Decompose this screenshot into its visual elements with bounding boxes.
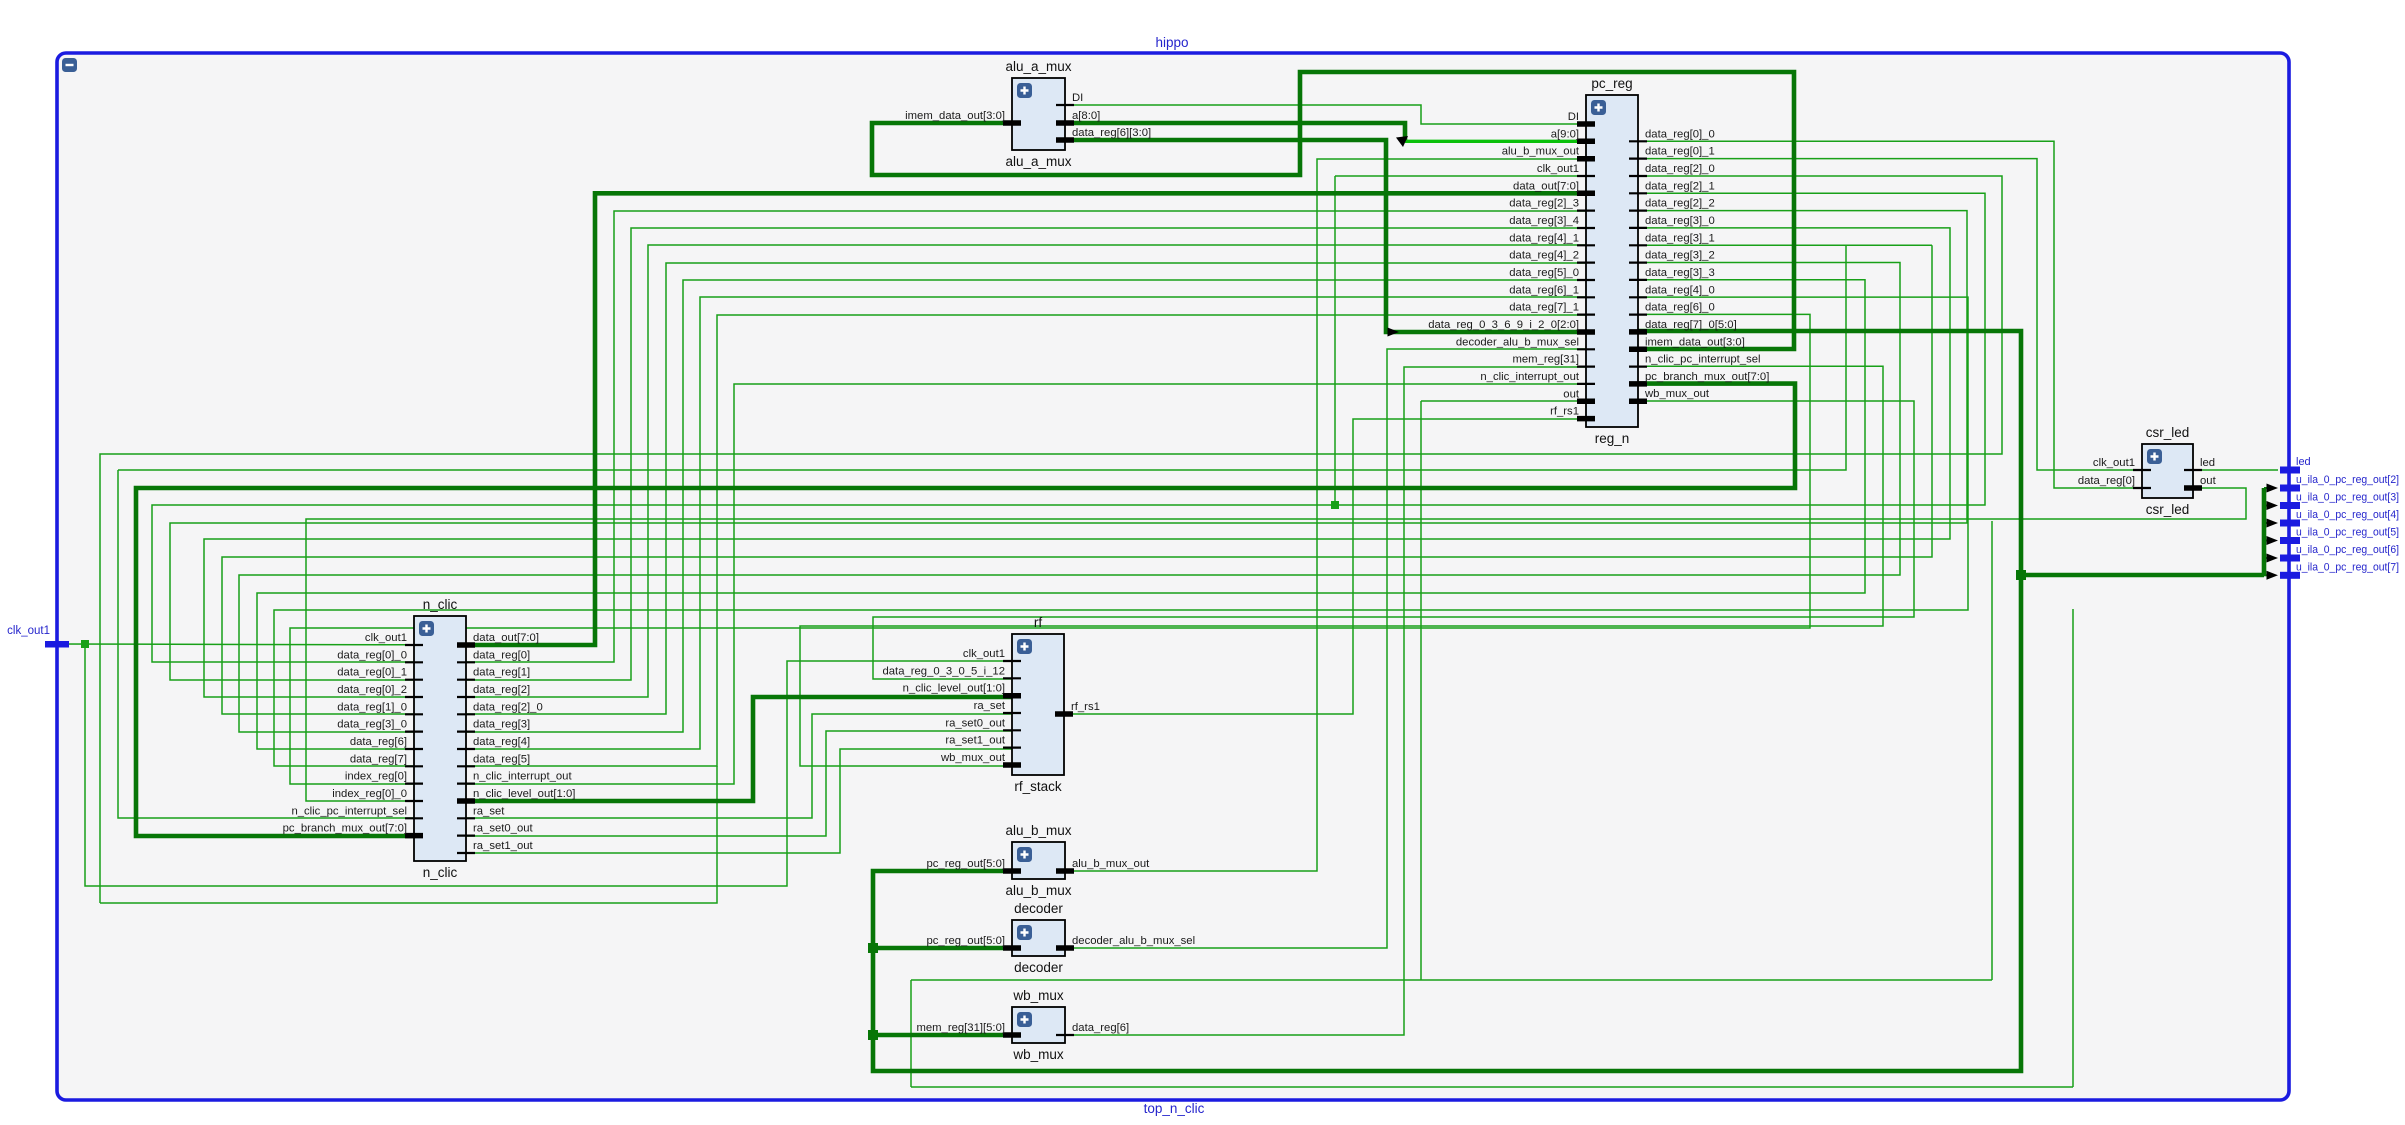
arrow u_ila[4] (2267, 519, 2279, 528)
svg-text:mem_reg[31][5:0]: mem_reg[31][5:0] (916, 1022, 1005, 1034)
pin pc_reg.data_out[7:0] (1577, 191, 1595, 197)
wire n_clic to pc_reg y211 (466, 211, 1586, 662)
pin n_clic.data_reg[0]_0 (405, 661, 423, 663)
svg-text:index_reg[0]_0: index_reg[0]_0 (332, 788, 407, 800)
wire DI (1065, 105, 1586, 124)
svg-text:led: led (2200, 457, 2215, 469)
pin n_clic.data_reg[0]_2 (405, 696, 423, 698)
pin pc_reg.data_reg[2]_1 (1629, 192, 1647, 194)
svg-text:u_ila_0_pc_reg_out[7]: u_ila_0_pc_reg_out[7] (2296, 561, 2399, 573)
pin pc_reg.wb_mux_out (1629, 398, 1647, 404)
pin pc_reg.clk_out1 (1577, 175, 1595, 177)
svg-text:out: out (2200, 475, 2217, 487)
svg-text:imem_data_out[3:0]: imem_data_out[3:0] (1645, 336, 1745, 348)
port led (right border) (2280, 467, 2300, 474)
svg-text:data_reg[2]_3: data_reg[2]_3 (1509, 198, 1579, 210)
wire pc_reg_out to decoder (873, 946, 1012, 951)
svg-text:data_reg[2]_0: data_reg[2]_0 (473, 701, 543, 713)
pin pc_reg.data_reg[7]_0[5:0] (1629, 329, 1647, 335)
pin wb_mux.mem_reg[31][5:0] (1003, 1032, 1021, 1038)
svg-text:alu_a_mux: alu_a_mux (1005, 154, 1071, 169)
wire a bus highlighted (1405, 140, 1586, 143)
svg-text:u_ila_0_pc_reg_out[3]: u_ila_0_pc_reg_out[3] (2296, 492, 2399, 504)
svg-text:rf_stack: rf_stack (1014, 779, 1062, 794)
wire clk vertical to pc_reg (1334, 176, 1336, 505)
wire y557 line (222, 245, 1932, 714)
wire bottom thin rail (911, 1086, 2073, 1088)
svg-text:n_clic_pc_interrupt_sel: n_clic_pc_interrupt_sel (1645, 354, 1761, 366)
pin alu_a_mux.imem_data_out[3:0] (1003, 120, 1021, 126)
svg-text:ra_set: ra_set (473, 805, 505, 817)
svg-text:data_reg[4]: data_reg[4] (473, 736, 530, 748)
pin rf.ra_set (1003, 712, 1021, 714)
pin pc_reg.data_reg[4]_2 (1577, 262, 1595, 264)
pin decoder.pc_reg_out[5:0] (1003, 945, 1021, 951)
svg-text:wb_mux: wb_mux (1012, 1047, 1064, 1062)
pin pc_reg.data_reg[3]_1 (1629, 244, 1647, 246)
wire right thin vertical x1992 (1991, 521, 1993, 980)
wire to rf wb_mux_out (800, 366, 1883, 766)
svg-text:decoder: decoder (1014, 901, 1063, 916)
pin wb_mux.data_reg[6] (1056, 1034, 1074, 1036)
pin n_clic.n_clic_interrupt_out (457, 782, 475, 784)
svg-text:data_reg[0]_0: data_reg[0]_0 (337, 649, 407, 661)
svg-text:rf_rs1: rf_rs1 (1550, 406, 1579, 418)
pin pc_reg.data_reg[3]_3 (1629, 279, 1647, 281)
wire n_clic to pc_reg y315 (466, 315, 1586, 766)
svg-text:data_reg[5]: data_reg[5] (473, 753, 530, 765)
pin csr_led.out (2184, 485, 2202, 491)
svg-text:alu_b_mux_out: alu_b_mux_out (1072, 858, 1150, 870)
wire lower thin rail y980 (911, 979, 1992, 981)
pin n_clic.data_reg[0]_1 (405, 679, 423, 681)
pin pc_reg.alu_b_mux_out (1577, 156, 1595, 162)
pin pc_reg.out (1577, 399, 1595, 405)
pin pc_reg.data_reg[2]_2 (1629, 210, 1647, 212)
wire data_reg[7]_0[5:0] bus (873, 331, 2021, 1071)
pin decoder.decoder_alu_b_mux_sel (1056, 945, 1074, 951)
pin pc_reg.mem_reg[31] (1577, 366, 1595, 368)
svg-text:wb_mux: wb_mux (1012, 988, 1064, 1003)
svg-text:u_ila_0_pc_reg_out[4]: u_ila_0_pc_reg_out[4] (2296, 509, 2399, 521)
svg-text:n_clic: n_clic (423, 597, 458, 612)
pin pc_reg.data_reg[0]_1 (1629, 158, 1647, 160)
pin n_clic.n_clic_pc_interrupt_sel (405, 817, 423, 819)
svg-text:alu_b_mux: alu_b_mux (1005, 883, 1071, 898)
svg-text:n_clic_level_out[1:0]: n_clic_level_out[1:0] (903, 683, 1005, 695)
svg-text:data_reg[1]_0: data_reg[1]_0 (337, 701, 407, 713)
arrowhead a bus (1396, 136, 1408, 147)
pin rf.rf_rs1 (1055, 711, 1073, 717)
svg-text:n_clic_pc_interrupt_sel: n_clic_pc_interrupt_sel (291, 805, 407, 817)
svg-text:data_reg[0]_2: data_reg[0]_2 (337, 684, 407, 696)
wire fan y193.3 (152, 193, 1985, 662)
wire clk to rf (85, 644, 1012, 886)
svg-text:data_reg[6][3:0]: data_reg[6][3:0] (1072, 127, 1151, 139)
pin n_clic.data_reg[6] (405, 748, 423, 750)
wire fan y227.9 (204, 228, 1950, 697)
svg-text:alu_a_mux: alu_a_mux (1005, 59, 1071, 74)
pin pc_reg.data_reg[6]_1 (1577, 296, 1595, 298)
svg-text:clk_out1: clk_out1 (1537, 163, 1579, 175)
svg-text:data_reg[7]: data_reg[7] (350, 753, 407, 765)
arrow u_ila[3] (2267, 501, 2279, 510)
svg-text:data_reg[3]_0: data_reg[3]_0 (337, 719, 407, 731)
port u_ila_0_pc_reg_out[7] (right border) (2280, 572, 2300, 579)
pin pc_reg.a[9:0] (1577, 139, 1595, 145)
svg-text:alu_b_mux: alu_b_mux (1005, 823, 1071, 838)
wire fan y279.8 (257, 280, 1865, 749)
wire n_clic to pc_reg y280 (466, 280, 1586, 732)
pin pc_reg.data_reg[2]_0 (1629, 175, 1647, 177)
svg-text:wb_mux_out: wb_mux_out (1644, 388, 1710, 400)
pin rf.data_reg_0_3_0_5_i_12 (1003, 677, 1021, 679)
pin pc_reg.n_clic_interrupt_out (1577, 383, 1595, 385)
svg-text:data_reg[5]_0: data_reg[5]_0 (1509, 267, 1579, 279)
pin n_clic.data_reg[1]_0 (405, 713, 423, 715)
pin n_clic.ra_set0_out (457, 834, 475, 836)
svg-text:data_reg[6]: data_reg[6] (350, 736, 407, 748)
pin n_clic.ra_set (457, 817, 475, 819)
svg-text:data_reg[1]: data_reg[1] (473, 667, 530, 679)
pin alu_a_mux.DI (1056, 104, 1074, 106)
svg-text:imem_data_out[3:0]: imem_data_out[3:0] (905, 110, 1005, 122)
arrow u_ila[6] (2267, 554, 2279, 563)
svg-text:data_reg[3]_0: data_reg[3]_0 (1645, 215, 1715, 227)
wire right thin vertical x2073 (2072, 609, 2074, 1087)
arrowhead data_reg_0_3_6_9 (1388, 328, 1400, 337)
pin n_clic.clk_out1 (405, 644, 423, 646)
pin rf.wb_mux_out (1003, 762, 1021, 768)
wire bus to ila ticks (2021, 573, 2264, 578)
wire n_clic to pc_reg y228 (466, 228, 1586, 680)
pin csr_led.clk_out1 (2133, 469, 2151, 471)
pin pc_reg.data_reg_0_3_6_9_i_2_0[2:0] (1577, 329, 1595, 335)
svg-text:data_reg[2]_2: data_reg[2]_2 (1645, 198, 1715, 210)
wire n_clic to pc_reg y297 (466, 297, 1586, 749)
wire clk_out1 to n_clic (57, 643, 414, 646)
svg-text:top_n_clic: top_n_clic (1144, 1101, 1205, 1116)
svg-text:decoder_alu_b_mux_sel: decoder_alu_b_mux_sel (1456, 336, 1579, 348)
pin alu_b_mux.pc_reg_out[5:0] (1003, 868, 1021, 874)
wire ra_set1_out (466, 749, 1012, 853)
svg-text:mem_reg[31]: mem_reg[31] (1512, 354, 1579, 366)
wire rail bridge x911 (910, 980, 912, 1087)
arrow u_ila[5] (2267, 536, 2279, 545)
svg-text:ra_set1_out: ra_set1_out (945, 735, 1006, 747)
wire y470 line (118, 245, 1846, 470)
wire col118 to n_clic_pc_interrupt_sel (118, 470, 414, 818)
collapse button (62, 58, 77, 72)
svg-text:ra_set1_out: ra_set1_out (473, 840, 534, 852)
wire csr out loop (306, 488, 2246, 801)
svg-text:hippo: hippo (1155, 35, 1188, 50)
pin pc_reg.data_reg[6]_0 (1629, 314, 1647, 316)
svg-text:n_clic_level_out[1:0]: n_clic_level_out[1:0] (473, 788, 575, 800)
svg-text:data_reg_0_3_0_5_i_12: data_reg_0_3_0_5_i_12 (882, 665, 1005, 677)
pin pc_reg.data_reg[3]_4 (1577, 227, 1595, 229)
wire pc_reg data_reg[3]_1 out (1638, 244, 1932, 246)
svg-text:data_reg[2]_0: data_reg[2]_0 (1645, 163, 1715, 175)
pin n_clic.ra_set1_out (457, 852, 475, 854)
pin n_clic.index_reg[0] (405, 782, 423, 784)
svg-text:n_clic_interrupt_out: n_clic_interrupt_out (1480, 371, 1579, 383)
pin pc_reg.imem_data_out[3:0] (1629, 347, 1647, 353)
pin pc_reg.rf_rs1 (1577, 416, 1595, 422)
svg-text:data_reg[3]_4: data_reg[3]_4 (1509, 215, 1579, 227)
svg-text:index_reg[0]: index_reg[0] (345, 771, 407, 783)
wire n_clic to pc_reg y384 (466, 384, 1586, 784)
pin n_clic.data_reg[0] (457, 661, 475, 663)
wire to rf data_reg_0_3 (873, 401, 1914, 679)
wire data_reg[6][3:0] bus (1065, 140, 1586, 332)
svg-text:DI: DI (1072, 92, 1083, 104)
svg-text:u_ila_0_pc_reg_out[5]: u_ila_0_pc_reg_out[5] (2296, 527, 2399, 539)
pin alu_b_mux.alu_b_mux_out (1056, 868, 1074, 874)
pin pc_reg.pc_branch_mux_out[7:0] (1629, 381, 1647, 387)
svg-text:data_reg[6]: data_reg[6] (1072, 1022, 1129, 1034)
svg-text:pc_reg_out[5:0]: pc_reg_out[5:0] (926, 935, 1005, 947)
svg-text:data_reg[3]_3: data_reg[3]_3 (1645, 267, 1715, 279)
svg-text:decoder: decoder (1014, 960, 1063, 975)
pin alu_a_mux.data_reg[6][3:0] (1056, 137, 1074, 143)
pin n_clic.data_reg[3]_0 (405, 730, 423, 732)
pin rf.ra_set1_out (1003, 746, 1021, 748)
svg-text:n_clic: n_clic (423, 865, 458, 880)
svg-text:data_reg[4]_0: data_reg[4]_0 (1645, 284, 1715, 296)
svg-text:pc_reg_out[5:0]: pc_reg_out[5:0] (926, 858, 1005, 870)
wire ra_set (466, 714, 1012, 818)
pin pc_reg.data_reg[4]_0 (1629, 296, 1647, 298)
port u_ila_0_pc_reg_out[3] (right border) (2280, 502, 2300, 509)
wire fan y176 wrap (100, 176, 2002, 903)
wire led (2193, 469, 2278, 471)
wire ra_set0_out (466, 731, 1012, 836)
wire out vertical (1420, 401, 1422, 980)
svg-text:rf: rf (1034, 615, 1042, 630)
svg-text:pc_branch_mux_out[7:0]: pc_branch_mux_out[7:0] (1645, 371, 1769, 383)
wire y903 return wrap (100, 766, 717, 903)
pin csr_led.led (2184, 469, 2202, 471)
svg-text:data_reg[6]_0: data_reg[6]_0 (1645, 302, 1715, 314)
pin pc_reg.n_clic_pc_interrupt_sel (1629, 366, 1647, 368)
wire mem_reg to wb_mux (873, 1033, 1012, 1038)
svg-text:clk_out1: clk_out1 (963, 648, 1005, 660)
pin n_clic.n_clic_level_out[1:0] (457, 798, 475, 804)
wire fan y297.1 (274, 297, 1968, 766)
svg-text:data_reg[3]_1: data_reg[3]_1 (1645, 232, 1715, 244)
svg-text:u_ila_0_pc_reg_out[2]: u_ila_0_pc_reg_out[2] (2296, 474, 2399, 486)
arrow u_ila[7] (2267, 571, 2279, 580)
svg-text:clk_out1: clk_out1 (365, 632, 407, 644)
wire fan y210.6 (170, 211, 1967, 680)
node junction decoder (868, 943, 878, 953)
wire clk into pc_reg (1335, 175, 1586, 177)
wire n_clic to pc_reg y263 (466, 263, 1586, 714)
pin csr_led.data_reg[0] (2133, 487, 2151, 489)
pin pc_reg.decoder_alu_b_mux_sel (1577, 348, 1595, 350)
pin alu_a_mux.a[8:0] (1056, 120, 1074, 126)
node junction wb_mux (868, 1030, 878, 1040)
arrow u_ila[2] (2267, 484, 2279, 493)
svg-text:led: led (2296, 456, 2311, 468)
svg-text:data_reg[0]: data_reg[0] (473, 649, 530, 661)
wire decoder_alu_b_mux_sel (1065, 349, 1586, 948)
port u_ila_0_pc_reg_out[4] (right border) (2280, 520, 2300, 527)
svg-text:clk_out1: clk_out1 (2093, 457, 2135, 469)
port u_ila_0_pc_reg_out[5] (right border) (2280, 537, 2300, 544)
pin n_clic.data_out[7:0] (457, 642, 475, 648)
svg-text:data_reg[2]: data_reg[2] (473, 684, 530, 696)
svg-text:decoder_alu_b_mux_sel: decoder_alu_b_mux_sel (1072, 935, 1195, 947)
svg-text:data_reg[2]_1: data_reg[2]_1 (1645, 180, 1715, 192)
wire data_reg[0]_0 to csr data_reg[0] (1638, 141, 2142, 488)
port u_ila_0_pc_reg_out[2] (right border) (2280, 485, 2300, 492)
svg-text:data_reg[3]: data_reg[3] (473, 719, 530, 731)
svg-text:data_reg[4]_1: data_reg[4]_1 (1509, 232, 1579, 244)
pin pc_reg.data_reg[7]_1 (1577, 314, 1595, 316)
pin n_clic.data_reg[2]_0 (457, 713, 475, 715)
svg-text:pc_branch_mux_out[7:0]: pc_branch_mux_out[7:0] (283, 823, 407, 835)
pin n_clic.data_reg[5] (457, 765, 475, 767)
svg-text:csr_led: csr_led (2146, 425, 2190, 440)
wire ila vertical (2262, 488, 2267, 575)
pin n_clic.index_reg[0]_0 (405, 800, 423, 802)
svg-text:a[9:0]: a[9:0] (1551, 128, 1579, 140)
svg-text:alu_b_mux_out: alu_b_mux_out (1502, 146, 1580, 158)
pin pc_reg.data_reg[3]_0 (1629, 227, 1647, 229)
wire data_reg[0]_1 to csr clk (1638, 159, 2142, 470)
wire data_reg[6] / mem_reg[31] (1065, 367, 1586, 1035)
svg-text:data_reg[0]_1: data_reg[0]_1 (337, 667, 407, 679)
pin pc_reg.data_reg[3]_2 (1629, 262, 1647, 264)
svg-text:ra_set0_out: ra_set0_out (473, 823, 534, 835)
svg-text:clk_out1: clk_out1 (7, 625, 50, 637)
node junction ila (2016, 570, 2026, 580)
svg-text:data_reg[6]_1: data_reg[6]_1 (1509, 284, 1579, 296)
pin rf.clk_out1 (1003, 660, 1021, 662)
node clk junction mid (1331, 501, 1339, 509)
port u_ila_0_pc_reg_out[6] (right border) (2280, 555, 2300, 562)
wire a bus (1065, 123, 1405, 141)
pin pc_reg.data_reg[0]_0 (1629, 140, 1647, 142)
svg-text:csr_led: csr_led (2146, 502, 2190, 517)
pin pc_reg.data_reg[4]_1 (1577, 244, 1595, 246)
wire n_clic to pc_reg y245 (466, 245, 1586, 697)
pin pc_reg.data_reg[5]_0 (1577, 279, 1595, 281)
svg-text:data_reg[0]_0: data_reg[0]_0 (1645, 128, 1715, 140)
svg-text:data_reg[7]_0[5:0]: data_reg[7]_0[5:0] (1645, 319, 1737, 331)
svg-text:data_out[7:0]: data_out[7:0] (473, 632, 539, 644)
svg-text:reg_n: reg_n (1595, 431, 1630, 446)
pin pc_reg.data_reg[2]_3 (1577, 210, 1595, 212)
wire n_clic_level_out[1:0] bus (466, 697, 1012, 801)
svg-text:n_clic_interrupt_out: n_clic_interrupt_out (473, 771, 572, 783)
node clk junction (81, 640, 89, 648)
svg-text:a[8:0]: a[8:0] (1072, 110, 1100, 122)
svg-text:data_reg_0_3_6_9_i_2_0[2:0]: data_reg_0_3_6_9_i_2_0[2:0] (1428, 319, 1579, 331)
svg-text:data_reg[4]_2: data_reg[4]_2 (1509, 250, 1579, 262)
svg-text:ra_set0_out: ra_set0_out (945, 717, 1006, 729)
pin n_clic.data_reg[7] (405, 765, 423, 767)
svg-text:rf_rs1: rf_rs1 (1071, 701, 1100, 713)
wire alu_b_mux_out (1065, 159, 1586, 871)
pin n_clic.data_reg[3] (457, 730, 475, 732)
port clk_out1 (left border) (45, 641, 69, 648)
svg-text:DI: DI (1568, 111, 1579, 123)
svg-text:data_reg[0]: data_reg[0] (2078, 475, 2135, 487)
svg-text:data_reg[7]_1: data_reg[7]_1 (1509, 302, 1579, 314)
pin rf.ra_set0_out (1003, 729, 1021, 731)
svg-text:out: out (1563, 388, 1580, 400)
svg-text:pc_reg: pc_reg (1591, 76, 1632, 91)
svg-text:u_ila_0_pc_reg_out[6]: u_ila_0_pc_reg_out[6] (2296, 544, 2399, 556)
svg-text:data_reg[3]_2: data_reg[3]_2 (1645, 250, 1715, 262)
pin n_clic.pc_branch_mux_out[7:0] (405, 833, 423, 839)
pin pc_reg.DI (1577, 121, 1595, 127)
svg-text:wb_mux_out: wb_mux_out (940, 752, 1006, 764)
pin n_clic.data_reg[4] (457, 748, 475, 750)
wire out into pc_reg (1421, 400, 1586, 402)
wire fan y314.4 (290, 314, 1810, 784)
wire data_out[7:0] bus (466, 193, 1586, 645)
pin n_clic.data_reg[2] (457, 696, 475, 698)
pin rf.n_clic_level_out[1:0] (1003, 693, 1021, 699)
wire pc_branch_mux_out[7:0] bus (136, 384, 1795, 836)
wire fan y262.5 (239, 263, 1900, 733)
svg-text:data_out[7:0]: data_out[7:0] (1513, 180, 1579, 192)
svg-text:ra_set: ra_set (974, 700, 1006, 712)
wire rf_rs1 (1064, 419, 1586, 714)
wire imem_data_out[3:0] loop (872, 72, 1794, 349)
svg-text:data_reg[0]_1: data_reg[0]_1 (1645, 146, 1715, 158)
pin n_clic.data_reg[1] (457, 679, 475, 681)
